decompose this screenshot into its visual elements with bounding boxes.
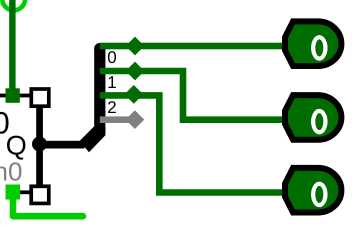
component bottom white square	[31, 186, 49, 203]
component top white square	[31, 89, 49, 106]
output pin 2	[285, 95, 341, 140]
svg-text:0: 0	[107, 48, 116, 67]
wire (bright green L)	[13, 198, 83, 216]
node (dark green junction square)	[6, 88, 20, 103]
wire (black lead into bottom square)	[18, 190, 30, 194]
pin 2 value 0	[311, 109, 328, 135]
junction dot	[32, 137, 47, 152]
wire leg 2 to pin 3	[100, 95, 286, 192]
wire (black bus vertical)	[36, 106, 43, 186]
output pin ring (value 1) top-left	[2, 0, 25, 10]
output pin 3	[285, 168, 341, 213]
pin 3 value 0	[311, 182, 328, 208]
output pin 1	[285, 21, 341, 66]
svg-text:2: 2	[107, 98, 116, 117]
wire (black bus horizontal to splitter)	[40, 141, 85, 149]
diamond marker row 2	[124, 85, 143, 104]
diamond marker gray	[126, 110, 145, 129]
diamond marker row 0	[126, 37, 145, 56]
svg-text:1: 1	[107, 73, 116, 92]
splitter trunk diagonal	[80, 126, 106, 152]
wire (black lead into top square)	[0, 94, 31, 98]
wire gray unconnected stub	[100, 116, 135, 123]
pin 1 value 0	[311, 35, 328, 60]
wire (dark green vertical from ring to node)	[9, 0, 15, 92]
wire leg 0 to pin 1	[100, 43, 286, 50]
diamond marker row 1	[126, 62, 145, 81]
node (bright green junction square)	[6, 185, 21, 200]
splitter bar	[94, 49, 105, 133]
svg-text:n0: n0	[0, 157, 22, 187]
wire leg 1 to pin 2	[100, 71, 286, 120]
